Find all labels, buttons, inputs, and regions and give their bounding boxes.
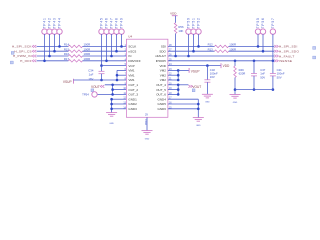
wire TP49 drop (121, 34, 123, 46)
svg-text:100R: 100R (229, 43, 236, 47)
wire GND rail right (197, 99, 199, 117)
junction TP41 (43, 60, 46, 63)
wire VM1 rail (116, 70, 118, 80)
wire C34 bottom (101, 74, 103, 80)
wire R56 to nFAULT (175, 34, 177, 57)
svg-text:U4: U4 (128, 35, 132, 39)
svg-text:TP50: TP50 (187, 17, 191, 28)
svg-text:100R: 100R (84, 52, 91, 56)
svg-text:TP54: TP54 (82, 92, 89, 96)
junction OUT_4 (177, 84, 180, 87)
resistor R13 (215, 50, 229, 53)
svg-text:VM1: VM1 (128, 69, 135, 73)
svg-text:nFAULT: nFAULT (155, 54, 166, 58)
svg-text:VOUT: VOUT (192, 85, 201, 89)
testpoint TP45 (99, 29, 104, 34)
testpoint TP57 (270, 29, 275, 34)
svg-text:OUT_6: OUT_6 (156, 93, 166, 97)
chevron H_OFF (32, 60, 36, 63)
testpoint TP43 (52, 29, 57, 34)
chevron VOUT right (188, 85, 192, 88)
wire OUT_6 (168, 93, 178, 95)
svg-text:GND5: GND5 (158, 102, 167, 106)
svg-text:50V: 50V (277, 75, 282, 79)
svg-text:SDO: SDO (159, 49, 166, 53)
junction OUT_3 (111, 93, 114, 96)
wire TP57 drop (272, 34, 274, 61)
testpoint TP55 (255, 29, 260, 34)
wire H_SPI_CS left segment (37, 50, 69, 52)
svg-text:H_SPI_SDO: H_SPI_SDO (279, 50, 299, 54)
svg-text:H_PWM_IN: H_PWM_IN (13, 54, 32, 58)
wire VDD to R56 (175, 16, 177, 23)
wire TP52 drop (198, 34, 200, 46)
junction OUT_1 (111, 84, 114, 87)
svg-text:H_FAULT: H_FAULT (279, 54, 295, 58)
svg-text:R13: R13 (208, 47, 214, 51)
svg-text:TP55: TP55 (256, 17, 260, 28)
svg-text:H_OFF: H_OFF (20, 59, 32, 63)
wire C34 top (101, 66, 103, 72)
wire OUT_2 (113, 89, 127, 91)
wire IPROPI (168, 60, 274, 62)
wire VDD pin (168, 65, 221, 67)
junction C34 VSUP (100, 79, 103, 82)
svg-text:TP45: TP45 (100, 17, 104, 28)
svg-text:VM2: VM2 (160, 78, 167, 82)
svg-text:VDD: VDD (223, 64, 230, 68)
junction TP57 (272, 60, 275, 63)
svg-text:VM2: VM2 (160, 73, 167, 77)
wire SDO (168, 50, 215, 52)
sheet marker H_SPI_SDI (313, 47, 316, 50)
testpoint TP49 (119, 29, 124, 34)
testpoint TP44 (57, 29, 62, 34)
wire H_SPI_SCK left segment (37, 45, 69, 47)
wire VOUT right (178, 84, 188, 86)
capacitor C37 (251, 73, 257, 75)
svg-text:TP47: TP47 (110, 17, 114, 28)
ground PAD (142, 130, 153, 132)
svg-text:SCLK: SCLK (128, 45, 136, 49)
svg-text:OUT_1: OUT_1 (128, 83, 138, 87)
testpoint TP46 (104, 29, 109, 34)
testpoint TP56 (260, 29, 265, 34)
wire TP51 drop (193, 34, 195, 51)
svg-text:H_SPI_SDI: H_SPI_SDI (279, 45, 298, 49)
resistor R17 (68, 60, 82, 63)
svg-text:VM1: VM1 (128, 73, 135, 77)
svg-text:GND4: GND4 (158, 97, 167, 101)
svg-text:100R: 100R (84, 47, 91, 51)
svg-text:R14: R14 (64, 43, 70, 47)
wire R17 right segment (83, 60, 127, 62)
wire VM1 pin6 (117, 69, 126, 71)
svg-text:100R: 100R (229, 47, 236, 51)
wire GND4 (168, 98, 198, 100)
wire TP43 drop (54, 34, 56, 51)
svg-text:GND: GND (196, 125, 201, 127)
junction TP49 (120, 45, 123, 48)
junction R49 top (234, 60, 237, 63)
wire TP44 drop (59, 34, 61, 46)
wire H_SPI_SDO (229, 50, 275, 52)
svg-text:TP51: TP51 (192, 17, 196, 28)
wire H_OFF left segment (37, 60, 69, 62)
wire RC bottom rail (235, 89, 273, 91)
svg-text:IN: IN (128, 54, 131, 58)
wire GND3 (112, 108, 127, 110)
resistor R15 (68, 50, 82, 53)
svg-text:VSUP: VSUP (191, 69, 200, 73)
testpoint TP41 (42, 29, 47, 34)
svg-text:29: 29 (145, 114, 148, 117)
junction GND2 (110, 103, 113, 106)
wire VM2 pin a (168, 69, 178, 71)
svg-text:50V: 50V (260, 75, 265, 79)
svg-text:R15: R15 (64, 47, 70, 51)
svg-text:C34: C34 (88, 68, 94, 72)
testpoint TP47 (109, 29, 114, 34)
svg-text:1nF: 1nF (260, 72, 265, 76)
wire H_PWM_IN left segment (37, 55, 69, 57)
svg-text:100R: 100R (84, 57, 91, 61)
svg-text:H_SPI_CS: H_SPI_CS (14, 49, 31, 53)
svg-text:R12: R12 (208, 43, 214, 47)
wire R14 right segment (83, 45, 127, 47)
svg-text:GND3: GND3 (128, 107, 137, 111)
junction GND3 (110, 108, 113, 111)
junction TP42 (48, 55, 51, 58)
sheet marker H_FAULT (313, 56, 316, 59)
resistor R49 (234, 66, 237, 78)
svg-text:VDD: VDD (160, 64, 167, 68)
svg-text:TP52: TP52 (197, 17, 201, 28)
sheet marker VOUT right (192, 89, 195, 92)
svg-text:100R: 100R (84, 43, 91, 47)
testpoint TP42 (47, 29, 52, 34)
ground C32 (202, 93, 213, 95)
wire R15 right segment (83, 50, 127, 52)
junction GND5 (197, 103, 200, 106)
wire H_SPI_SDI (229, 45, 275, 47)
wire VM2 pin b (168, 74, 178, 76)
wire C21 bottom (272, 76, 274, 90)
wire GND1 (112, 98, 127, 100)
testpoint TP54 (92, 92, 97, 97)
junction TP46 (105, 60, 108, 63)
chevron H_FAULT (274, 55, 278, 58)
resistor R56 (174, 23, 177, 34)
wire VM2 pin c (168, 79, 178, 81)
svg-text:VM1: VM1 (128, 78, 135, 82)
svg-text:TP41: TP41 (43, 17, 47, 28)
wire C32 top (206, 66, 208, 80)
svg-text:1uF: 1uF (89, 73, 94, 77)
svg-text:TP44: TP44 (58, 17, 62, 28)
svg-text:GND: GND (145, 138, 150, 140)
wire TP47 drop (111, 34, 113, 56)
wire TP56 drop (262, 34, 264, 51)
svg-text:16V: 16V (210, 75, 215, 79)
svg-text:DRVOFF: DRVOFF (128, 59, 140, 63)
junction VM1 b (116, 79, 119, 82)
resistor R12 (215, 45, 229, 48)
junction C21 rail (272, 88, 275, 91)
wire C37 bottom (253, 76, 255, 90)
chevron H_SPI_SDO (274, 50, 278, 53)
wire GND rail left (111, 99, 113, 112)
wire R49 top (234, 61, 236, 66)
resistor R16 (68, 55, 82, 58)
svg-text:VDD: VDD (170, 12, 177, 16)
capacitor C21 (270, 73, 276, 75)
wire GND6 (168, 108, 198, 110)
svg-text:TP43: TP43 (53, 17, 57, 28)
ground R49 (230, 94, 241, 96)
wire TP42 drop (49, 34, 51, 56)
svg-text:TP42: TP42 (48, 17, 52, 28)
junction R56 nFAULT (174, 55, 177, 58)
svg-text:VM2: VM2 (160, 69, 167, 73)
junction TP55 (257, 45, 260, 48)
ground left (106, 112, 117, 114)
junction TP47 (110, 55, 113, 58)
wire PAD (146, 117, 148, 130)
svg-text:C37: C37 (260, 68, 266, 72)
sheet marker H_OFF (10, 61, 13, 64)
junction VM1 a (116, 74, 119, 77)
junction TP56 (262, 50, 265, 53)
svg-text:nSCS: nSCS (128, 49, 136, 53)
wire R49 bottom (234, 78, 236, 95)
svg-text:OUT_3: OUT_3 (128, 93, 138, 97)
chevron ISENSE (274, 60, 278, 63)
wire TP45 drop (101, 34, 103, 66)
wire nFAULT (168, 55, 274, 57)
svg-text:GND: GND (233, 102, 238, 104)
svg-text:VSUP: VSUP (63, 80, 72, 84)
testpoint TP52 (196, 29, 201, 34)
wire VSUP right (178, 69, 189, 71)
junction GND1 (110, 98, 113, 101)
wire R16 right segment (83, 55, 127, 57)
wire OUT_5 (168, 89, 178, 91)
junction R49 rail (234, 88, 237, 91)
svg-text:TP57: TP57 (271, 17, 275, 28)
svg-text:OUT_4: OUT_4 (156, 83, 166, 87)
junction VM2 b (177, 74, 180, 77)
wire C21 top (272, 61, 274, 74)
svg-text:R16: R16 (64, 52, 70, 56)
junction TP45 (100, 64, 103, 67)
wire TP55 drop (257, 34, 259, 46)
sheet marker H_SPI_CS (11, 52, 14, 55)
svg-text:TP46: TP46 (105, 17, 109, 28)
junction VM2 a (177, 69, 180, 72)
junction C37 top (253, 60, 256, 63)
junction C37 rail (253, 88, 256, 91)
svg-text:TP48: TP48 (115, 17, 119, 28)
wire OUT rail left (112, 85, 114, 95)
chevron H_SPI_CS (32, 50, 36, 53)
junction VM2 c (177, 79, 180, 82)
junction OUT_2 (111, 88, 114, 91)
chevron H_SPI_SDI (274, 45, 278, 48)
svg-text:ISENSE: ISENSE (279, 59, 292, 63)
junction GND6 (197, 108, 200, 111)
wire OUT_3 (97, 93, 126, 95)
junction OUT_5 (177, 88, 180, 91)
testpoint TP50 (186, 29, 191, 34)
junction TP52 (197, 45, 200, 48)
wire GND5 (168, 103, 198, 105)
junction TP51 (192, 50, 195, 53)
wire OUT_1 (105, 84, 127, 86)
wire GND2 (112, 103, 127, 105)
chevron VOUT left (100, 85, 104, 88)
svg-text:C21: C21 (277, 68, 283, 72)
wire VM2 rail (177, 70, 179, 80)
wire TP50 drop (188, 34, 190, 56)
wire VM1 pin7 (117, 74, 126, 76)
power flag VSUP right (188, 68, 190, 73)
wire OUT_4 (168, 84, 178, 86)
junction TP44 (58, 45, 61, 48)
junction TP48 (115, 50, 118, 53)
svg-text:GND: GND (109, 123, 114, 125)
wire C37 top (253, 61, 255, 74)
chevron H_SPI_SCK (32, 45, 36, 48)
wire TP48 drop (116, 34, 118, 51)
resistor R14 (68, 45, 82, 48)
svg-text:TP56: TP56 (261, 17, 265, 28)
junction TP43 (53, 50, 56, 53)
svg-text:SDI: SDI (161, 45, 166, 49)
junction TP50 (187, 55, 190, 58)
wire TP41 drop (44, 34, 46, 61)
svg-text:GND2: GND2 (128, 102, 137, 106)
svg-text:TP49: TP49 (120, 17, 124, 28)
wire TP46 drop (106, 34, 108, 61)
capacitor C32 (204, 79, 210, 81)
testpoint TP51 (191, 29, 196, 34)
testpoint TP48 (114, 29, 119, 34)
chevron H_PWM_IN (32, 55, 36, 58)
svg-text:10K: 10K (178, 29, 183, 33)
sheet marker VOUT left (91, 89, 94, 92)
svg-text:GND1: GND1 (128, 97, 137, 101)
svg-text:GND: GND (205, 102, 210, 104)
junction OUT_6 (177, 93, 180, 96)
power flag VDD right (220, 63, 222, 68)
wire SDI (168, 45, 215, 47)
svg-text:H_SPI_SCK: H_SPI_SCK (12, 45, 32, 49)
svg-text:OUT_5: OUT_5 (156, 88, 166, 92)
ic U4 outline (126, 39, 167, 117)
wire VM1 pin8 (117, 79, 126, 81)
capacitor C34 (99, 70, 105, 72)
ground right (193, 117, 204, 119)
wire OUT rail right (177, 85, 179, 95)
svg-text:620R: 620R (239, 72, 246, 76)
svg-text:GND6: GND6 (158, 107, 167, 111)
svg-text:R17: R17 (64, 57, 70, 61)
svg-text:OUT_2: OUT_2 (128, 88, 138, 92)
junction C32 (206, 64, 209, 67)
svg-text:VOUT: VOUT (91, 85, 100, 89)
power flag VSUP left (73, 79, 75, 84)
svg-text:IPROPI: IPROPI (156, 59, 166, 63)
wire VSUP left (74, 79, 118, 81)
svg-text:VCP: VCP (128, 64, 134, 68)
svg-text:100nF: 100nF (277, 72, 285, 76)
wire VCP (102, 65, 127, 67)
wire C32 bottom (206, 82, 208, 94)
